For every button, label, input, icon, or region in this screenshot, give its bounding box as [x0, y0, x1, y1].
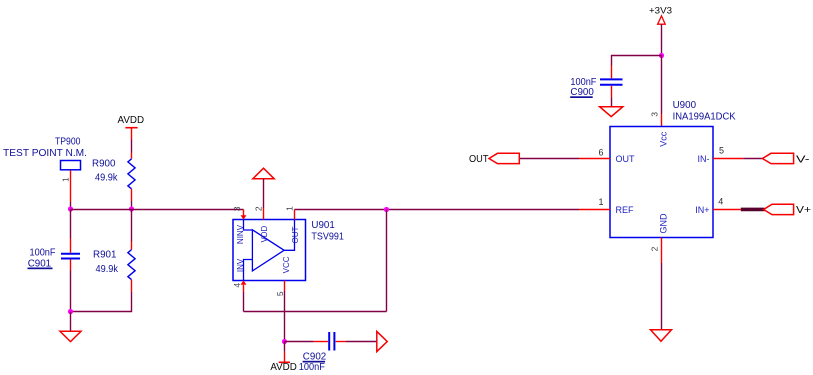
svg-text:100nF: 100nF — [30, 247, 56, 258]
wire C902 to arrow — [346, 341, 377, 343]
pin 1 lead — [294, 210, 296, 220]
pin 5 lead — [284, 281, 286, 292]
op-amp OUT stub — [284, 220, 294, 251]
wire AVDD to R900 — [131, 140, 133, 153]
wire pin4 to feedback — [243, 292, 245, 312]
svg-text:IN+: IN+ — [695, 205, 709, 215]
svg-text:5: 5 — [275, 291, 285, 296]
svg-text:1: 1 — [284, 206, 294, 211]
wire pin 2 to ground — [661, 263, 663, 330]
C900 labels — [570, 77, 596, 98]
wire node to R901 — [131, 210, 133, 242]
wire node to AVDD bottom — [284, 342, 286, 352]
thick wire pin 4 to V+ port — [741, 208, 765, 212]
+3V3 power arrow — [658, 16, 666, 24]
power arrow right — [377, 331, 387, 351]
wire pin1 to REF — [295, 209, 580, 211]
pin 3 lead with arrow — [241, 210, 247, 220]
svg-text:AVDD: AVDD — [118, 115, 145, 126]
pin 4 lead with arrow — [241, 281, 247, 293]
svg-text:INV: INV — [236, 258, 245, 272]
op-amp U901 triangle — [252, 230, 284, 271]
U901 labels — [311, 220, 344, 243]
wire power arrow to pin 2 — [263, 179, 265, 208]
svg-text:6: 6 — [598, 148, 603, 158]
power arrow above U901 — [253, 168, 274, 179]
svg-text:OUT: OUT — [291, 226, 300, 243]
AVDD power symbol bar — [125, 128, 137, 140]
ground symbol left — [60, 331, 81, 341]
svg-text:100nF: 100nF — [299, 362, 325, 373]
op-amp INV stub — [244, 260, 253, 281]
svg-text:OUT: OUT — [616, 154, 636, 164]
C902 labels — [299, 352, 326, 373]
svg-text:3: 3 — [650, 112, 660, 117]
wire OUT port to pin 6 — [519, 158, 579, 160]
node junction +3V3 — [659, 53, 664, 58]
svg-text:U901: U901 — [311, 220, 334, 231]
svg-text:IN-: IN- — [698, 154, 710, 164]
node junction bottom left — [68, 309, 73, 314]
capacitor C902 — [314, 332, 346, 351]
pin 5 lead — [713, 158, 743, 160]
svg-text:4: 4 — [232, 283, 242, 288]
svg-text:4: 4 — [718, 197, 723, 207]
IC U900 box — [610, 127, 713, 238]
R901 labels — [93, 250, 118, 275]
wire +3V3 to node — [661, 24, 663, 55]
wire node to pin 3 U900 — [661, 55, 663, 114]
svg-text:V-: V- — [796, 153, 810, 165]
svg-text:GND: GND — [659, 213, 669, 234]
svg-text:VDD: VDD — [260, 225, 269, 242]
capacitor C901 — [61, 239, 80, 271]
node junction left — [68, 206, 73, 211]
wire pin 5 to V- port — [743, 158, 762, 160]
resistor R901 — [128, 242, 135, 293]
pin 4 lead — [713, 209, 741, 211]
svg-text:Vcc: Vcc — [659, 131, 669, 147]
op-amp NINV stub — [244, 220, 253, 231]
wire feedback riser — [386, 210, 388, 312]
svg-text:U900: U900 — [673, 100, 697, 111]
svg-text:TEST POINT N.M.: TEST POINT N.M. — [3, 148, 87, 159]
wire node to C900 — [612, 56, 662, 66]
pin 2 lead — [263, 208, 265, 220]
wire node to C902 — [285, 341, 314, 343]
test point TP900 label — [3, 136, 87, 159]
wire C901 to bottom node — [70, 271, 72, 312]
C901 labels — [28, 247, 56, 269]
svg-text:REF: REF — [616, 205, 635, 215]
AVDD power symbol bottom — [279, 352, 290, 363]
ground symbol U900 — [651, 330, 672, 342]
svg-text:1: 1 — [598, 197, 603, 207]
node junction C902 — [282, 339, 287, 344]
svg-text:+3V3: +3V3 — [649, 5, 672, 15]
op-amp U901 box — [233, 220, 306, 281]
test point pin lead — [70, 170, 72, 202]
pin 2 lead U900 — [661, 238, 663, 264]
svg-text:NINV: NINV — [236, 224, 245, 244]
svg-text:2: 2 — [253, 206, 263, 211]
wire pin5 down — [284, 291, 286, 342]
svg-text:TSV991: TSV991 — [311, 231, 344, 242]
R900 labels — [92, 159, 118, 184]
pin 6 lead — [579, 158, 610, 160]
wire node to C901 — [70, 210, 72, 239]
svg-text:OUT: OUT — [469, 153, 489, 165]
wire R900 to node — [131, 201, 133, 210]
wire R901 bottom — [71, 292, 132, 312]
wire main horizontal left — [71, 209, 244, 211]
V+ port symbol — [764, 204, 794, 214]
svg-text:VCC: VCC — [282, 256, 291, 273]
svg-text:TP900: TP900 — [55, 136, 81, 147]
capacitor C900 — [600, 66, 623, 98]
OUT port symbol — [489, 153, 519, 163]
ground symbol C900 — [600, 107, 623, 117]
svg-text:AVDD: AVDD — [270, 362, 297, 373]
wire to ground left — [70, 312, 72, 332]
svg-text:49.9k: 49.9k — [95, 173, 118, 184]
svg-text:1: 1 — [61, 177, 70, 182]
test point TP900 body — [61, 161, 81, 170]
svg-text:3: 3 — [232, 206, 242, 211]
node junction feedback — [384, 207, 389, 212]
wire feedback bottom — [244, 311, 387, 313]
pin 3 lead U900 — [661, 114, 663, 127]
wire testpoint to node — [70, 202, 72, 210]
resistor R900 — [128, 153, 135, 202]
svg-text:INA199A1DCK: INA199A1DCK — [673, 111, 736, 122]
pin 1 lead U900 — [579, 209, 610, 211]
svg-text:R901: R901 — [93, 250, 116, 261]
svg-text:5: 5 — [719, 145, 724, 155]
svg-text:2: 2 — [649, 246, 659, 251]
wire C900 to ground — [611, 98, 613, 107]
U900 labels — [673, 100, 736, 123]
svg-text:R900: R900 — [92, 159, 116, 170]
svg-text:49.9k: 49.9k — [96, 264, 119, 275]
svg-text:V+: V+ — [796, 204, 811, 216]
node junction R900 — [129, 206, 134, 211]
V- port symbol — [762, 153, 793, 163]
